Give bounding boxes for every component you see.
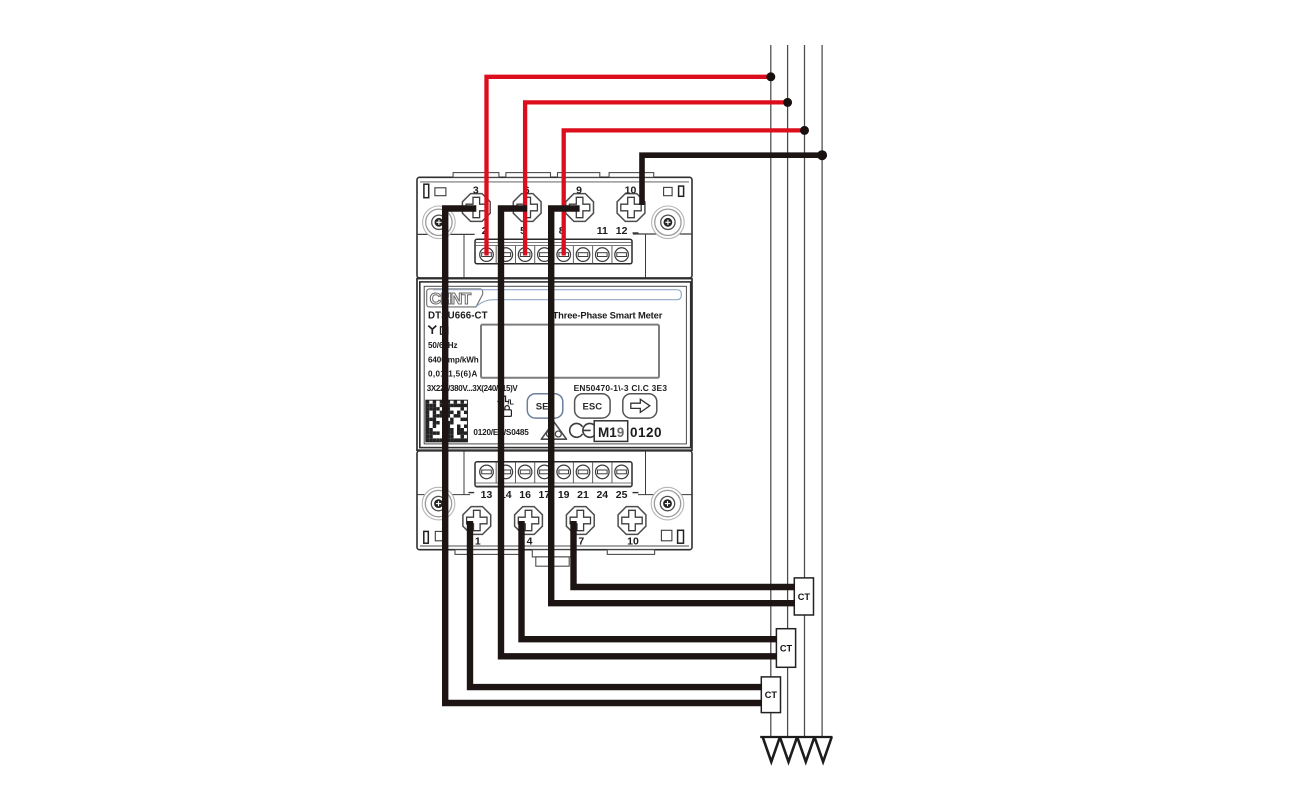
junction dot L1 [767, 73, 775, 81]
wire: screw 9 down to CT1 lower lead [551, 209, 795, 604]
top strip screw terminal 4 [538, 248, 552, 262]
top screw terminal 3 [462, 194, 490, 222]
sealing clip windows bottom-right [661, 530, 672, 541]
blue banner line [433, 290, 681, 307]
svg-text:CT: CT [780, 643, 793, 653]
wire: black neutral (screw 10 to net N) [642, 155, 826, 205]
meter M1 bottom terminal section [417, 451, 692, 550]
svg-text:24: 24 [596, 489, 608, 501]
CE mark [570, 423, 583, 437]
CHINT logo box [427, 289, 483, 307]
bottom DIN rail clip [532, 550, 571, 557]
wire: screw 6 down to CT2 lower lead [501, 209, 777, 657]
svg-text:3X220/380V...3X(240/415)V: 3X220/380V...3X(240/415)V [427, 384, 519, 393]
pulse output icon [497, 396, 509, 401]
wire: screw 4 down to CT2 upper lead [522, 521, 778, 639]
svg-text:16: 16 [519, 489, 531, 501]
bottom strip screw terminal 5 [557, 465, 571, 479]
junction dot L2 [784, 98, 792, 106]
wiring symbols row [428, 326, 436, 334]
svg-text:9: 9 [576, 185, 582, 197]
sealing clip windows top-left [424, 184, 429, 198]
top screw terminal 6 [513, 194, 541, 222]
bottom strip screw terminal 6 [576, 465, 590, 479]
meter M1: CHINT DTSU666-CT body, middle section [417, 279, 692, 451]
ground symbol top bar [760, 736, 832, 738]
bottom strip screw terminal 3 [518, 465, 532, 479]
svg-text:EN50470-1\-3 Cl.C 3E3: EN50470-1\-3 Cl.C 3E3 [574, 383, 668, 393]
wire: screw 1 down to CT3 upper lead [470, 521, 762, 687]
top strip screw terminal 5 [557, 248, 571, 262]
svg-text:25: 25 [616, 489, 628, 501]
junction dot N [818, 151, 827, 160]
ESC button [575, 394, 611, 418]
top screw terminal 10 [617, 194, 645, 222]
ground arrow 3 [797, 737, 814, 762]
svg-text:7: 7 [578, 536, 584, 548]
sealing clip windows bottom-left [424, 531, 429, 543]
top strip screw terminal 8 [615, 248, 629, 262]
bottom screw terminal 7 [566, 507, 594, 535]
svg-text:ESC: ESC [583, 402, 603, 413]
top strip screw terminal 2 [499, 248, 513, 262]
bottom strip screw terminal 1 [480, 465, 494, 479]
svg-text:M19: M19 [598, 425, 624, 440]
bottom terminal strip (terminals 13-25) [475, 462, 632, 487]
svg-text:19: 19 [558, 489, 570, 501]
current transformer CT3 [761, 677, 780, 713]
svg-text:1: 1 [475, 536, 481, 548]
lock icon [503, 410, 512, 417]
top strip screw terminal 6 [576, 248, 590, 262]
svg-text:3: 3 [473, 185, 479, 197]
wire: red voltage tap L3 (terminal 8 to net L3) [564, 130, 805, 255]
svg-text:21: 21 [577, 489, 589, 501]
svg-text:11: 11 [597, 225, 608, 237]
top mounting tab 1 [453, 173, 499, 178]
svg-text:/L: /L [508, 398, 515, 407]
certification triangle mark [541, 422, 566, 439]
top screw terminal 9 [566, 194, 594, 222]
ground arrow 4 [815, 737, 832, 762]
junction dot L3 [801, 126, 809, 134]
svg-text:12: 12 [616, 225, 628, 237]
top-right cover fixing screw [652, 206, 685, 239]
svg-text:0,01-1,5(6)A: 0,01-1,5(6)A [428, 369, 478, 378]
top-left cover fixing screw [423, 206, 456, 239]
svg-text:0120: 0120 [630, 425, 662, 440]
QR data-matrix code [426, 400, 468, 442]
bottom strip screw terminal 7 [596, 465, 610, 479]
bottom screw terminal 1 [463, 507, 491, 535]
top terminal strip (terminals 2,5,8,11,12) [475, 239, 632, 264]
top strip screw terminal 7 [596, 248, 610, 262]
bottom strip screw terminal 8 [615, 465, 629, 479]
top mounting tab 4 [609, 173, 654, 178]
svg-text:10: 10 [625, 185, 637, 197]
wire: vertical supply net line L2 [787, 45, 789, 738]
ground arrow 2 [780, 737, 797, 762]
bottom section step outline [417, 494, 470, 496]
bottom strip screw terminal 2 [499, 465, 513, 479]
ground arrow 1 [763, 737, 780, 762]
svg-text:DTSU666-CT: DTSU666-CT [428, 310, 488, 321]
wire: screw 7 down to CT1 upper lead [574, 521, 795, 587]
bottom screw terminal 4 [515, 507, 543, 535]
bottom screw terminal 10 [618, 507, 646, 535]
wire: red voltage tap L1 (terminal 2 to net L1) [487, 77, 771, 256]
svg-text:10: 10 [627, 536, 639, 548]
svg-text:6400imp/kWh: 6400imp/kWh [428, 356, 479, 365]
LCD display window [481, 325, 659, 378]
current transformer CT1 [794, 578, 813, 615]
top mounting tab 2 [506, 173, 551, 178]
wire: vertical supply net line L3 [804, 45, 806, 738]
meter M1 top terminal section [417, 177, 692, 278]
top section step outline [417, 233, 475, 235]
bottom strip screw terminal 4 [538, 465, 552, 479]
wire: vertical supply net line L1 [770, 45, 772, 738]
M19 metrology box [594, 421, 628, 442]
bottom mounting tab left [455, 550, 521, 555]
bottom-left cover fixing screw [422, 487, 455, 520]
top strip screw terminal 1 [480, 248, 494, 262]
svg-text:CHNT: CHNT [430, 291, 472, 308]
SET button [527, 394, 563, 418]
svg-text:CT: CT [765, 690, 778, 700]
top strip screw terminal 3 [518, 248, 532, 262]
svg-text:Three-Phase Smart Meter: Three-Phase Smart Meter [553, 309, 663, 320]
svg-text:CT: CT [798, 592, 811, 602]
top mounting tab 3 [558, 173, 600, 178]
wire: screw 3 down to CT3 lower lead [445, 209, 762, 704]
current transformer CT2 [776, 629, 795, 668]
sealing clip windows top-right [664, 187, 673, 195]
arrow button [623, 394, 657, 418]
svg-text:4: 4 [527, 536, 533, 548]
wire: vertical supply net line N [821, 45, 823, 738]
meter front label panel [420, 282, 691, 448]
svg-text:13: 13 [481, 489, 493, 501]
bottom mounting tab right [607, 550, 654, 555]
bottom-right cover fixing screw [651, 487, 684, 520]
wire: red voltage tap L2 (terminal 5 to net L2) [525, 102, 788, 255]
